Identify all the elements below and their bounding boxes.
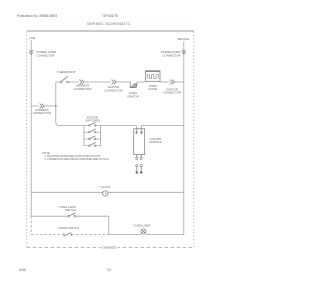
module terminal right [141, 132, 143, 134]
top rule [27, 30, 194, 32]
diagram frame left border [26, 32, 28, 248]
svg-text:6/06: 6/06 [19, 268, 26, 272]
switch S1 [84, 122, 101, 126]
diagram frame right border [193, 32, 195, 248]
svg-text:* CLOCK: * CLOCK [99, 185, 111, 189]
wire ignitor switch row [62, 125, 84, 127]
connector power cord right [182, 50, 186, 54]
clock [99, 185, 111, 196]
spark electrode left [136, 165, 139, 174]
svg-text:VALVE: VALVE [148, 87, 157, 91]
connector ignitor 2 [170, 80, 175, 85]
wire junction to switch row (curve) [56, 106, 62, 126]
svg-text:SWITCH: SWITCH [65, 208, 76, 212]
switch S3 [84, 136, 101, 140]
svg-text:CONNECTOR: CONNECTOR [74, 87, 92, 91]
svg-text:IGNITOR: IGNITOR [127, 94, 139, 98]
wire clock row [31, 191, 103, 193]
ignitor module stubs [136, 126, 138, 132]
ignitor switches bank [84, 122, 101, 146]
connector harness (row) [79, 80, 84, 85]
svg-text:TEF351/75: TEF351/75 [102, 14, 118, 18]
wire oven ignitor row [56, 81, 61, 83]
door switch [57, 226, 79, 236]
connector power cord left [29, 50, 33, 54]
oven lamp switch [58, 205, 77, 217]
module terminal left [136, 132, 138, 134]
svg-text:1. SWITCHES SHOWN ARE IN OFF P: 1. SWITCHES SHOWN ARE IN OFF POSITION AT… [45, 155, 102, 158]
part number on bottom border [101, 244, 118, 249]
switch S4 [84, 143, 101, 147]
svg-text:CONNECTOR: CONNECTOR [163, 53, 181, 57]
connector harness (rail) [40, 104, 45, 109]
thermostat [57, 70, 76, 83]
switch S2 [84, 129, 101, 133]
svg-text:13: 13 [107, 268, 111, 272]
connector ignitor 1 [112, 80, 117, 85]
spark electrode right [140, 165, 143, 174]
wire oven lamp switch row [31, 215, 68, 217]
node junction A [55, 105, 57, 107]
svg-text:SWITCHES: SWITCHES [85, 119, 100, 123]
wire door switch branch (dashed) [30, 216, 32, 234]
svg-text:316088201: 316088201 [102, 246, 117, 250]
wire lamp feed vertical [108, 216, 110, 234]
svg-text:Publication No. 5995510503: Publication No. 5995510503 [17, 14, 57, 18]
svg-text:NOTE:: NOTE: [42, 151, 50, 155]
wire harness branch [31, 105, 39, 107]
svg-text:* OVEN LAMP: * OVEN LAMP [132, 224, 150, 228]
wire right rail neutral [183, 42, 185, 235]
diagram frame bottom border [27, 246, 194, 248]
svg-text:CONNECTOR: CONNECTOR [163, 91, 181, 95]
svg-text:MODULE: MODULE [150, 140, 162, 144]
svg-text:CONNECTOR: CONNECTOR [33, 111, 51, 115]
svg-text:NEUTRAL: NEUTRAL [177, 37, 190, 41]
svg-text:WIRING SCHEMATIC: WIRING SCHEMATIC [87, 21, 131, 26]
wire left rail L1 [30, 40, 32, 216]
svg-text:* DOOR SWITCH: * DOOR SWITCH [57, 226, 79, 230]
oven lamp [132, 224, 150, 234]
svg-text:CONNECTOR: CONNECTOR [105, 88, 123, 92]
module output stubs [136, 155, 138, 158]
oven valve [146, 71, 161, 91]
svg-text:THERMOSTAT: THERMOSTAT [57, 70, 76, 74]
wire lamp row [109, 234, 141, 236]
svg-text:2. CONNECTORS ARE SHOWN FROM W: 2. CONNECTORS ARE SHOWN FROM WIRE SIDE O… [45, 158, 109, 161]
ignitor module box [134, 129, 145, 155]
wire riser thermostat to junction [55, 82, 57, 106]
svg-text:CONNECTOR: CONNECTOR [37, 53, 55, 57]
svg-text:LINE: LINE [30, 36, 36, 40]
oven ignitor [127, 82, 139, 98]
